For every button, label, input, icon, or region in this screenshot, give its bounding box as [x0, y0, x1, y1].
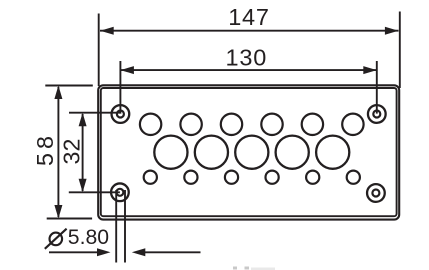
cable hole top row 6 [342, 114, 363, 135]
mounting hole top-right outer [368, 105, 386, 123]
mounting hole bottom-right outer [367, 184, 385, 202]
cable hole middle row 3 [235, 136, 268, 169]
extension line left for 147 [98, 14, 100, 87]
dimension line 58 [57, 87, 59, 217]
arrowhead 147 left [100, 27, 114, 35]
diameter symbol circle [50, 233, 63, 246]
cable hole middle row 4 [276, 136, 309, 169]
mounting hole top-right inner [373, 111, 380, 118]
arrowhead 130 left [120, 66, 133, 74]
arrowhead 58 top [54, 86, 62, 100]
arrowhead 130 right [363, 66, 377, 74]
cable hole top row 5 [302, 114, 323, 135]
svg-text:130: 130 [225, 45, 267, 71]
extension line bottom for 58 [47, 218, 92, 220]
arrowhead 5.80 pointing left [132, 248, 146, 256]
cable hole top row 3 [221, 114, 242, 135]
extension line left for 130 [119, 61, 121, 114]
mounting hole bottom-right inner [372, 190, 379, 197]
extension line top for 32 [69, 112, 120, 114]
cable hole top row 1 [140, 114, 161, 135]
cable hole middle row 5 [316, 136, 349, 169]
faint cropped caption remnant at bottom center [233, 267, 275, 270]
svg-text:32: 32 [59, 139, 85, 165]
cable hole middle row 2 [195, 136, 228, 169]
extension line bottom for 32 [69, 191, 120, 193]
diameter symbol slash [45, 229, 67, 249]
mounting hole bottom-left inner [116, 189, 123, 196]
mounting hole top-left outer [112, 105, 130, 123]
cable hole top row 4 [261, 114, 282, 135]
leader line right of 5.80 arrows [145, 251, 201, 253]
arrowhead 5.80 pointing right [97, 248, 111, 256]
leader line left of 5.80 arrows [49, 251, 98, 253]
mounting hole top-left inner [117, 111, 124, 118]
svg-text:58: 58 [32, 132, 58, 166]
arrowhead 147 right [385, 27, 399, 35]
extension line right for hole diameter 5.80 [124, 190, 126, 263]
extension line right for 130 [376, 61, 378, 114]
dimension line 32 [82, 114, 84, 191]
plate outer outline [98, 85, 399, 219]
arrowhead 32 top [79, 113, 87, 127]
cable hole bottom row 2 [184, 171, 197, 184]
plate inner outline [101, 88, 397, 216]
arrowhead 58 bottom [54, 205, 62, 219]
cable hole top row 2 [180, 114, 201, 135]
svg-text:5.80: 5.80 [68, 226, 109, 249]
cable hole bottom row 5 [306, 171, 319, 184]
mounting hole bottom-left outer [111, 183, 129, 201]
cable hole bottom row 6 [347, 171, 360, 184]
extension line top for 58 [45, 85, 93, 87]
cable hole bottom row 4 [266, 171, 279, 184]
dimension line 130 [121, 69, 376, 71]
cable hole bottom row 1 [144, 171, 157, 184]
extension line left for hole diameter 5.80 [115, 190, 117, 263]
extension line right for 147 [399, 12, 401, 89]
dimension line 147 [100, 30, 399, 32]
cable hole bottom row 3 [225, 171, 238, 184]
arrowhead 32 bottom [79, 179, 87, 193]
cable hole middle row 1 [154, 136, 187, 169]
svg-text:147: 147 [228, 4, 270, 30]
